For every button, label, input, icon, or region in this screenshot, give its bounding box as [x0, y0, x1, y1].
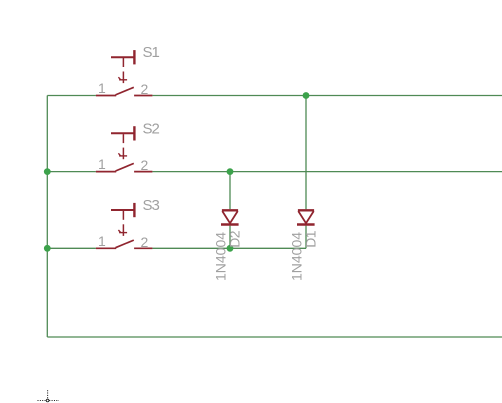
svg-text:S2: S2: [143, 120, 160, 137]
svg-text:S3: S3: [143, 197, 160, 214]
svg-text:S1: S1: [143, 44, 160, 61]
svg-text:D2: D2: [226, 230, 242, 248]
svg-text:1: 1: [98, 156, 106, 172]
svg-text:2: 2: [141, 234, 149, 250]
svg-text:1: 1: [98, 233, 106, 249]
svg-text:D1: D1: [303, 230, 319, 248]
svg-text:2: 2: [141, 81, 149, 97]
svg-text:2: 2: [141, 157, 149, 173]
svg-text:1: 1: [98, 80, 106, 96]
